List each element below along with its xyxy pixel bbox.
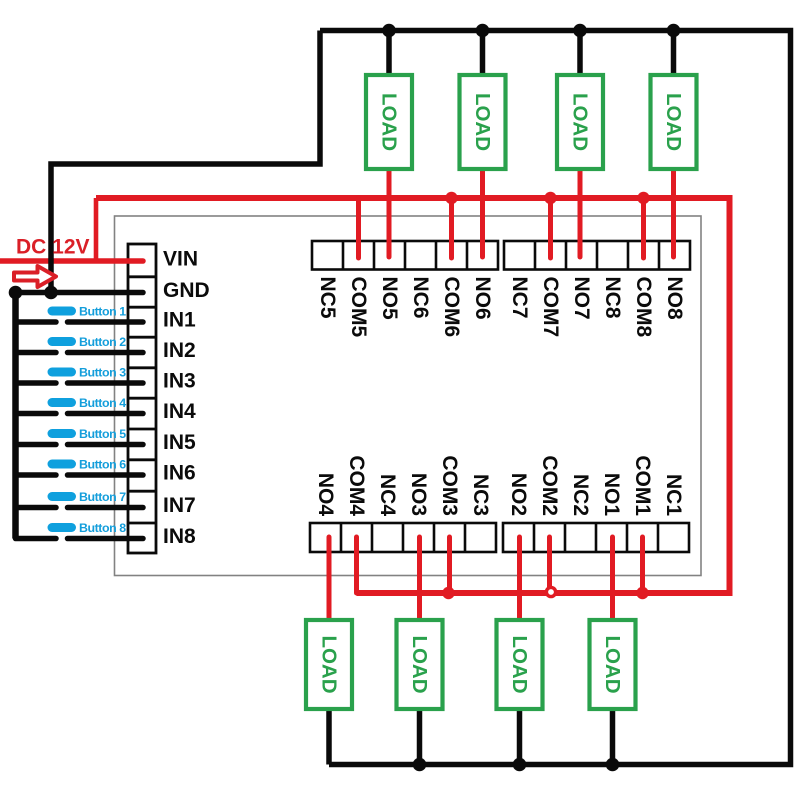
button 3 bbox=[48, 366, 127, 380]
svg-text:Button 7: Button 7 bbox=[79, 490, 126, 504]
wire NO3 to LOAD bbox=[417, 537, 422, 621]
wire stub COM7 bbox=[548, 198, 553, 258]
wire stub COM5 bbox=[356, 198, 361, 258]
svg-text:IN2: IN2 bbox=[163, 339, 196, 362]
svg-text:COM4: COM4 bbox=[345, 455, 368, 516]
svg-text:NC5: NC5 bbox=[316, 277, 339, 319]
svg-text:IN6: IN6 bbox=[163, 461, 196, 484]
wire top rail / right side / bottom rail bbox=[320, 31, 791, 765]
wire LOAD to NO5 bbox=[387, 169, 392, 257]
svg-text:NO5: NO5 bbox=[378, 277, 401, 321]
wire top 12V bus with right drop and bottom bus bbox=[96, 198, 730, 593]
svg-text:LOAD: LOAD bbox=[569, 93, 592, 151]
svg-text:LOAD: LOAD bbox=[662, 93, 685, 151]
wire LOAD to NO6 bbox=[480, 169, 485, 257]
terminal block NO4-NC3 bbox=[310, 523, 496, 552]
switch row IN3 bbox=[16, 380, 57, 386]
svg-text:IN8: IN8 bbox=[163, 525, 196, 548]
svg-text:NO3: NO3 bbox=[407, 473, 430, 516]
wire LOAD1b to bottom rail bbox=[610, 709, 616, 765]
wire LOAD4b to bottom rail bbox=[326, 709, 332, 765]
svg-text:NO8: NO8 bbox=[663, 277, 686, 321]
junction dot COM6 bus bbox=[445, 192, 457, 204]
button 6 bbox=[48, 458, 127, 472]
wire 12V riser bbox=[94, 198, 99, 261]
svg-text:IN3: IN3 bbox=[163, 369, 196, 392]
svg-text:NO7: NO7 bbox=[570, 277, 593, 320]
wire rail to LOAD8 bbox=[671, 31, 677, 77]
wire stub COM6 bbox=[449, 198, 454, 258]
svg-text:LOAD: LOAD bbox=[471, 93, 494, 151]
svg-text:GND: GND bbox=[163, 279, 210, 302]
junction dot bottom rail LOAD1b bbox=[606, 758, 620, 772]
svg-text:IN1: IN1 bbox=[163, 308, 196, 331]
wire rail to LOAD5 bbox=[386, 31, 392, 77]
svg-text:NO2: NO2 bbox=[507, 473, 530, 516]
svg-text:COM5: COM5 bbox=[347, 277, 370, 338]
junction dot rail LOAD7 bbox=[573, 24, 587, 38]
wire stub COM2 bbox=[547, 537, 552, 593]
svg-text:NC4: NC4 bbox=[376, 474, 399, 516]
button 8 bbox=[48, 521, 127, 535]
button 1 bbox=[48, 305, 127, 319]
wire VIN row bbox=[0, 258, 143, 264]
svg-text:VIN: VIN bbox=[163, 247, 198, 270]
junction dot rail LOAD6 bbox=[476, 24, 490, 38]
junction dot bottom rail LOAD3b bbox=[413, 758, 427, 772]
svg-text:DC 12V: DC 12V bbox=[16, 236, 90, 259]
junction dot COM8 bus bbox=[637, 192, 649, 204]
junction dot rail LOAD8 bbox=[667, 24, 681, 38]
junction dot COM7 bus bbox=[544, 192, 556, 204]
svg-text:IN4: IN4 bbox=[163, 400, 196, 423]
wire rail to LOAD6 bbox=[480, 31, 486, 77]
svg-text:NC7: NC7 bbox=[508, 277, 531, 319]
svg-text:Button 2: Button 2 bbox=[79, 335, 126, 349]
svg-text:LOAD: LOAD bbox=[408, 635, 431, 693]
junction dot rail LOAD5 bbox=[382, 24, 396, 38]
load box LOAD6 bbox=[460, 75, 506, 169]
wire NO2 to LOAD bbox=[517, 537, 522, 621]
svg-text:LOAD: LOAD bbox=[601, 635, 624, 693]
svg-text:NO1: NO1 bbox=[600, 473, 623, 517]
arrow 12V input bbox=[14, 266, 56, 287]
terminal block NC5-NO6 bbox=[312, 241, 498, 270]
load box LOAD4b bbox=[306, 620, 352, 709]
wire stub COM8 bbox=[641, 198, 646, 258]
svg-text:NO4: NO4 bbox=[314, 473, 337, 517]
svg-text:Button 8: Button 8 bbox=[79, 521, 126, 535]
svg-text:COM8: COM8 bbox=[632, 277, 655, 338]
svg-text:NC3: NC3 bbox=[469, 474, 492, 516]
load box LOAD7 bbox=[557, 75, 603, 169]
svg-text:Button 1: Button 1 bbox=[79, 305, 126, 319]
svg-text:COM2: COM2 bbox=[538, 455, 561, 516]
button 4 bbox=[48, 396, 127, 410]
terminal block NO2-NC1 bbox=[503, 523, 689, 552]
svg-text:COM1: COM1 bbox=[631, 455, 654, 516]
load box LOAD8 bbox=[651, 75, 697, 169]
wire stub COM3 bbox=[447, 537, 452, 593]
switch row IN7 bbox=[16, 505, 57, 511]
svg-text:LOAD: LOAD bbox=[508, 635, 531, 693]
junction dot left bus GND bbox=[9, 286, 23, 300]
wire LOAD2b to bottom rail bbox=[517, 709, 523, 765]
svg-text:Button 5: Button 5 bbox=[79, 427, 126, 441]
wire NO4 to LOAD bbox=[327, 537, 332, 621]
wire GND row bbox=[16, 290, 144, 296]
svg-text:IN7: IN7 bbox=[163, 494, 196, 517]
load box LOAD5 bbox=[366, 75, 412, 169]
wire LOAD to NO8 bbox=[671, 169, 676, 257]
switch row IN4 bbox=[16, 411, 57, 417]
svg-text:NO6: NO6 bbox=[471, 277, 494, 320]
wire LOAD3b to bottom rail bbox=[417, 709, 423, 765]
junction ring COM2 bus bbox=[546, 587, 555, 596]
junction dot bottom rail LOAD2b bbox=[513, 758, 527, 772]
wire NO1 to LOAD bbox=[610, 537, 615, 621]
junction dot COM1 bus bbox=[636, 587, 648, 599]
switch row IN8 bbox=[16, 536, 57, 542]
wire stub COM4 bbox=[354, 537, 359, 593]
wire GND feed riser bbox=[51, 31, 320, 293]
load box LOAD2b bbox=[497, 620, 543, 709]
svg-text:Button 3: Button 3 bbox=[79, 366, 126, 380]
svg-text:IN5: IN5 bbox=[163, 431, 196, 454]
svg-text:LOAD: LOAD bbox=[318, 635, 341, 693]
svg-text:NC2: NC2 bbox=[569, 474, 592, 516]
wire LOAD to NO7 bbox=[578, 169, 583, 257]
svg-text:Button 6: Button 6 bbox=[79, 458, 126, 472]
relay board outline bbox=[115, 216, 702, 576]
svg-text:Button 4: Button 4 bbox=[79, 396, 126, 410]
svg-text:NC6: NC6 bbox=[409, 277, 432, 319]
load box LOAD1b bbox=[590, 620, 636, 709]
switch row IN1 bbox=[16, 319, 57, 325]
wire rail to LOAD7 bbox=[577, 31, 583, 77]
load box LOAD3b bbox=[397, 620, 443, 709]
button 2 bbox=[48, 335, 127, 349]
button 5 bbox=[48, 427, 127, 441]
junction dot GND riser bbox=[44, 286, 58, 300]
switch row IN6 bbox=[16, 472, 57, 478]
wire stub COM1 bbox=[640, 537, 645, 593]
svg-text:NC8: NC8 bbox=[601, 277, 624, 319]
button 7 bbox=[48, 490, 127, 504]
svg-text:COM3: COM3 bbox=[438, 455, 461, 516]
svg-text:NC1: NC1 bbox=[662, 474, 685, 516]
terminal block NC7-NO8 bbox=[504, 241, 690, 270]
svg-text:LOAD: LOAD bbox=[378, 93, 401, 151]
switch row IN2 bbox=[16, 350, 57, 356]
wire left button bus bbox=[12, 293, 19, 539]
pin header VIN..IN8 bbox=[128, 244, 156, 553]
switch row IN5 bbox=[16, 442, 57, 448]
svg-text:COM6: COM6 bbox=[440, 277, 463, 338]
svg-text:COM7: COM7 bbox=[539, 277, 562, 338]
junction dot COM3 bus bbox=[442, 587, 454, 599]
